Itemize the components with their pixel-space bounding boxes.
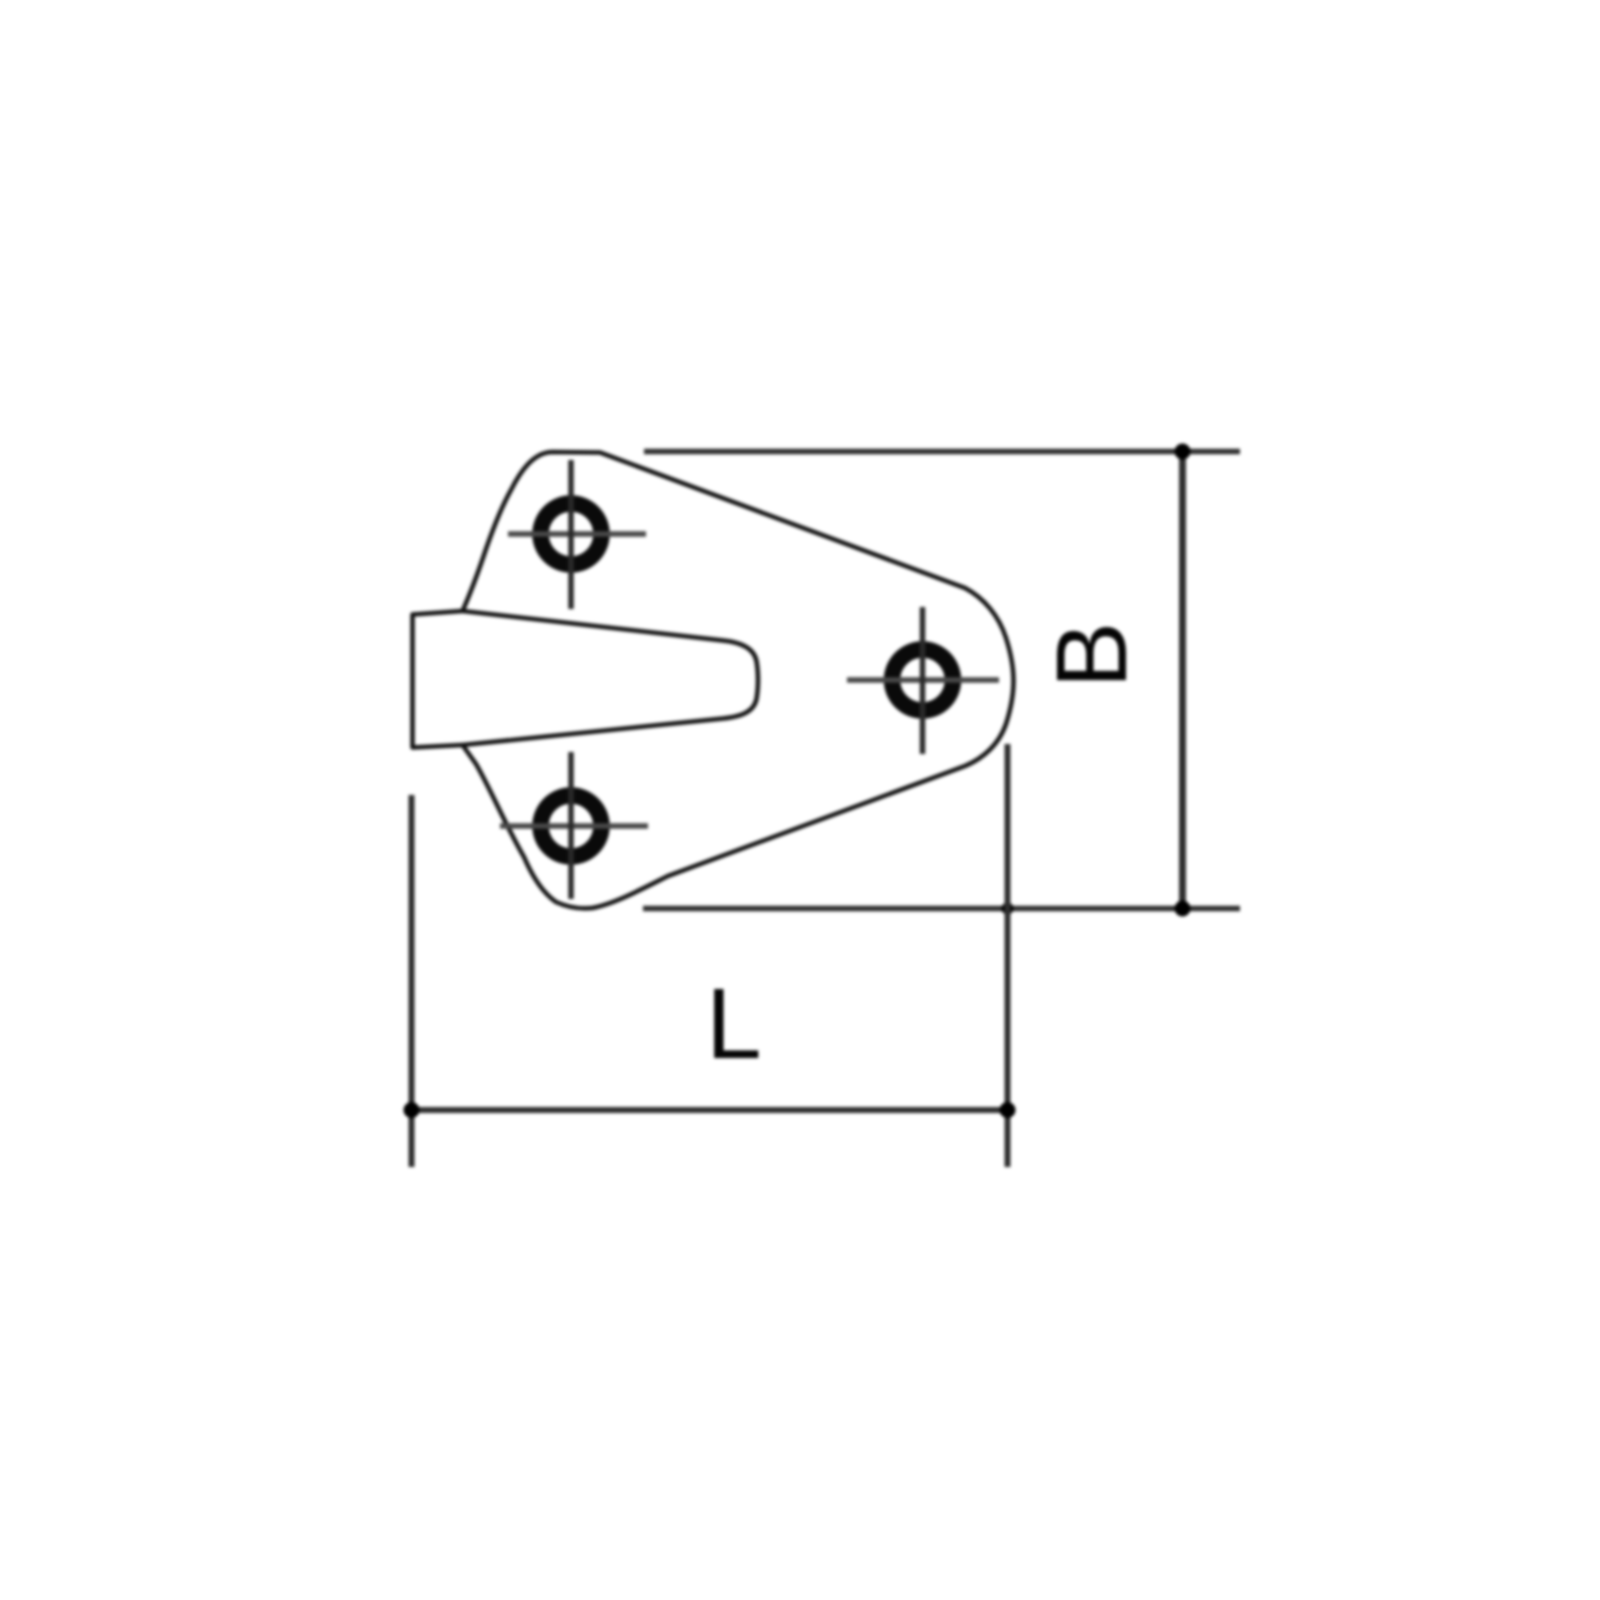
hole H3 crosshair vertical xyxy=(568,752,574,899)
L dim tick right xyxy=(1000,1102,1016,1118)
hole H2 crosshair vertical xyxy=(920,607,926,754)
hole H3 crosshair horizontal xyxy=(500,823,648,829)
hole H2 circle xyxy=(892,650,953,711)
wedge slot xyxy=(463,611,759,745)
L dim tick left xyxy=(404,1102,420,1118)
hole H1 crosshair horizontal xyxy=(508,531,646,537)
hole H2 crosshair horizontal xyxy=(847,677,999,683)
plate outline xyxy=(413,452,1014,908)
B dim tick top xyxy=(1175,444,1191,460)
B top extension line xyxy=(644,449,1240,455)
hole H3 circle xyxy=(541,796,602,857)
svg-text:B: B xyxy=(1036,622,1148,689)
B dim tick bottom xyxy=(1175,901,1191,917)
L right extension line xyxy=(1005,744,1011,1167)
L dimension line xyxy=(412,1107,1008,1113)
junction dot bottom ext / L right ext xyxy=(1002,903,1014,915)
hole H1 crosshair vertical xyxy=(568,460,574,609)
L left extension line xyxy=(409,795,415,1167)
B bottom extension line xyxy=(643,906,1240,912)
hole H1 circle xyxy=(541,504,602,565)
svg-text:L: L xyxy=(706,968,762,1080)
B dimension line xyxy=(1179,452,1186,909)
